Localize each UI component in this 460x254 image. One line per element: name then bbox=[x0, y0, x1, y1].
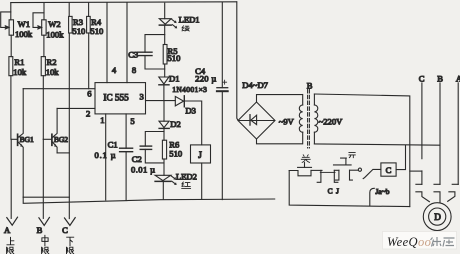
contact main B bbox=[434, 184, 440, 202]
diode D1 bbox=[159, 77, 169, 101]
svg-text:C1: C1 bbox=[108, 140, 118, 150]
svg-text:J: J bbox=[198, 150, 202, 160]
svg-text:5: 5 bbox=[130, 116, 134, 126]
svg-text:LED2: LED2 bbox=[176, 171, 197, 181]
svg-text:A: A bbox=[4, 225, 11, 235]
svg-text:6: 6 bbox=[87, 88, 92, 98]
op-amp U1 IC 555 bbox=[95, 83, 146, 114]
wire phase A bbox=[457, 83, 459, 184]
svg-text:0.1 µ: 0.1 µ bbox=[95, 150, 117, 160]
transformer B primary 9V winding bbox=[299, 95, 302, 144]
diode D3 bbox=[175, 96, 201, 145]
LED LED1 bbox=[159, 19, 177, 29]
wire contactor link bbox=[410, 170, 422, 172]
pin 5 bbox=[126, 114, 135, 200]
motor D bbox=[423, 203, 451, 231]
svg-text:W2: W2 bbox=[48, 19, 60, 29]
label xia xian (lower limit) bbox=[67, 237, 74, 254]
contact CJ bbox=[317, 170, 339, 182]
wire emitter tie bbox=[23, 196, 69, 198]
svg-text:D: D bbox=[434, 212, 441, 222]
wire bridge AC bottom bbox=[257, 139, 303, 144]
wire top supply rail bbox=[11, 1, 237, 4]
label guan bbox=[301, 155, 310, 163]
wire ground rail bbox=[23, 197, 275, 203]
contactor coil C bbox=[381, 145, 406, 176]
wire relay row bbox=[311, 169, 322, 171]
svg-text:220 µ: 220 µ bbox=[195, 73, 217, 83]
transformer core bbox=[308, 90, 310, 149]
label R6 510 bbox=[169, 140, 182, 159]
svg-text:Ja~b: Ja~b bbox=[375, 187, 389, 196]
svg-text:4: 4 bbox=[112, 65, 117, 75]
svg-text:~9V: ~9V bbox=[279, 117, 295, 127]
transformer 220V winding bbox=[314, 94, 317, 144]
svg-text:510: 510 bbox=[90, 26, 103, 36]
svg-text:10k: 10k bbox=[13, 67, 27, 77]
pin 4 bbox=[107, 3, 117, 83]
label C J bbox=[328, 187, 339, 196]
label R5 510 bbox=[168, 46, 181, 63]
wire relay loop left and bottom bbox=[289, 171, 410, 207]
pin 1 bbox=[100, 114, 106, 200]
resistor R6 bbox=[162, 140, 166, 175]
svg-text:C: C bbox=[62, 225, 68, 235]
label shang xian (upper limit) bbox=[7, 237, 14, 254]
label kai bbox=[349, 153, 355, 158]
wire 220V bottom to phase B bbox=[314, 144, 440, 145]
rectifier bridge D4~D7 bbox=[238, 102, 275, 139]
svg-text:10k: 10k bbox=[46, 67, 60, 77]
label R2 10k bbox=[46, 57, 60, 77]
label R1 10k bbox=[13, 57, 27, 77]
wire bridge AC top bbox=[257, 95, 303, 102]
svg-text:0.01 µ: 0.01 µ bbox=[131, 164, 156, 174]
wire pin 6 net bbox=[23, 88, 95, 90]
node probe arrow C bbox=[65, 218, 76, 226]
wire bridge DC+ bbox=[237, 2, 238, 121]
svg-text:D2: D2 bbox=[170, 119, 181, 129]
switch J a-b lower contact bbox=[370, 188, 375, 206]
svg-text:C: C bbox=[328, 187, 333, 196]
svg-text:LED1: LED1 bbox=[179, 15, 200, 25]
label R3 510 bbox=[72, 17, 85, 36]
wire pin 2 net bbox=[57, 107, 95, 109]
transistor BG1 bbox=[11, 89, 23, 198]
switch J a-b blade bbox=[363, 169, 381, 178]
svg-text:IC 555: IC 555 bbox=[103, 93, 129, 103]
svg-text:D4~D7: D4~D7 bbox=[242, 80, 268, 90]
svg-text:C2: C2 bbox=[132, 154, 142, 164]
svg-text:D1: D1 bbox=[169, 73, 180, 83]
label green (lv) bbox=[182, 26, 189, 31]
svg-text:510: 510 bbox=[168, 53, 181, 63]
svg-text:B: B bbox=[307, 81, 313, 91]
pushbutton guan (stop NC) bbox=[289, 163, 311, 176]
resistor R4 bbox=[87, 3, 91, 89]
pushbutton kai (start NO) bbox=[334, 158, 359, 180]
node probe arrow A bbox=[7, 217, 18, 225]
svg-text:BG1: BG1 bbox=[20, 135, 34, 144]
label R4 510 bbox=[90, 17, 103, 36]
svg-text:C: C bbox=[419, 73, 425, 83]
svg-text:BG2: BG2 bbox=[54, 135, 68, 144]
label red (hong) bbox=[182, 182, 191, 188]
capacitor C4 bbox=[217, 2, 228, 199]
pin 3 bbox=[140, 92, 176, 102]
resistor R5 bbox=[163, 45, 167, 78]
resistor R1 bbox=[9, 57, 13, 140]
diode D2 bbox=[159, 101, 169, 141]
potentiometer W1 bbox=[1, 3, 14, 57]
svg-text:8: 8 bbox=[132, 65, 136, 75]
contact main C bbox=[416, 184, 430, 201]
svg-text:1N4001×3: 1N4001×3 bbox=[172, 85, 207, 94]
pin 8 bbox=[127, 3, 136, 83]
resistor R2 bbox=[41, 57, 45, 140]
relay J bbox=[191, 145, 211, 199]
label C1 0.1u bbox=[95, 140, 118, 160]
svg-text:C3: C3 bbox=[128, 49, 138, 59]
svg-text:W1: W1 bbox=[18, 19, 30, 29]
contact main A bbox=[448, 184, 459, 201]
potentiometer W2 bbox=[33, 3, 46, 57]
svg-text:3: 3 bbox=[140, 92, 144, 102]
label C4 220u bbox=[195, 66, 217, 83]
LED LED2 bbox=[155, 175, 177, 199]
svg-text:D3: D3 bbox=[185, 106, 196, 116]
svg-text:R2: R2 bbox=[47, 57, 57, 67]
wire phase C bbox=[421, 83, 423, 184]
svg-text:2: 2 bbox=[86, 108, 90, 118]
svg-text:J: J bbox=[336, 187, 339, 196]
wire LED1 to R5 bbox=[164, 25, 166, 44]
svg-text:~220V: ~220V bbox=[319, 117, 344, 127]
capacitor C1 bbox=[120, 148, 133, 152]
watermark WeeQoo bbox=[383, 232, 457, 250]
wire phase B bbox=[439, 83, 441, 184]
svg-text:C: C bbox=[386, 165, 392, 175]
resistor R3 bbox=[69, 3, 73, 33]
transistor BG2 bbox=[43, 108, 69, 152]
wire LED chain top bbox=[164, 3, 166, 19]
label zhong xian (middle limit) bbox=[42, 235, 49, 254]
svg-text:R1: R1 bbox=[14, 57, 24, 67]
svg-text:510: 510 bbox=[169, 149, 182, 159]
node probe arrow B bbox=[39, 217, 50, 225]
label C2 0.01u bbox=[131, 154, 156, 174]
label W1 100k bbox=[15, 19, 33, 39]
svg-text:510: 510 bbox=[72, 26, 85, 36]
svg-text:WeeQoo: WeeQoo bbox=[387, 235, 431, 249]
svg-text:B: B bbox=[37, 225, 43, 235]
wire probe C line bbox=[68, 33, 70, 219]
svg-text:B: B bbox=[437, 73, 443, 83]
wire probe A line bbox=[10, 139, 12, 218]
svg-text:100k: 100k bbox=[46, 29, 64, 39]
label W2 100k bbox=[46, 19, 64, 39]
svg-text:A: A bbox=[456, 73, 460, 83]
svg-text:1: 1 bbox=[100, 115, 104, 125]
capacitor C3 bbox=[138, 35, 165, 69]
svg-text:100k: 100k bbox=[15, 29, 33, 39]
capacitor C2 bbox=[140, 132, 164, 163]
switch J a-b terminal bbox=[358, 168, 361, 171]
wire probe B line bbox=[42, 139, 44, 218]
wire 220V top to contactor bbox=[314, 94, 409, 207]
